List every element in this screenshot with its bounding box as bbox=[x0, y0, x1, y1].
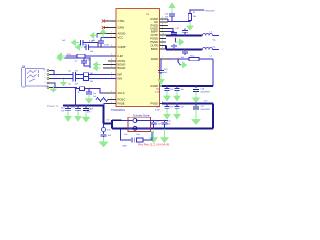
svg-text:Csn: Csn bbox=[124, 134, 127, 136]
svg-text:Rsn: Rsn bbox=[137, 134, 140, 136]
svg-text:0.1uF: 0.1uF bbox=[89, 41, 95, 43]
svg-text:3: 3 bbox=[111, 54, 112, 56]
svg-text:Schottky Diode: Schottky Diode bbox=[133, 115, 150, 118]
svg-text:3: 3 bbox=[111, 73, 112, 75]
svg-text:OUTN: OUTN bbox=[150, 44, 158, 48]
svg-text:PGND: PGND bbox=[150, 40, 158, 44]
svg-text:Dsn: Dsn bbox=[107, 130, 111, 132]
svg-text:100uF: 100uF bbox=[71, 107, 77, 109]
svg-text:C15: C15 bbox=[156, 89, 159, 91]
svg-text:GVDD: GVDD bbox=[150, 84, 158, 88]
svg-text:INP: INP bbox=[118, 73, 123, 77]
svg-text:C16: C16 bbox=[156, 106, 159, 108]
svg-text:C22: C22 bbox=[156, 120, 159, 122]
svg-text:PGND: PGND bbox=[150, 37, 158, 41]
svg-text:4: 4 bbox=[45, 81, 46, 83]
svg-text:CTRL: CTRL bbox=[118, 19, 126, 23]
svg-text:BGND: BGND bbox=[118, 63, 126, 67]
svg-text:TPA3106D1: TPA3106D1 bbox=[111, 108, 125, 112]
svg-text:0v: 0v bbox=[178, 61, 180, 63]
svg-text:BSPF: BSPF bbox=[151, 30, 158, 34]
svg-text:BSNF: BSNF bbox=[151, 47, 159, 51]
svg-text:10k: 10k bbox=[90, 73, 93, 75]
svg-text:Cin: Cin bbox=[68, 70, 71, 72]
svg-text:1/4W: 1/4W bbox=[122, 145, 127, 147]
svg-text:OUTP: OUTP bbox=[151, 33, 159, 37]
svg-text:10k: 10k bbox=[90, 81, 93, 83]
svg-text:MUTE: MUTE bbox=[118, 59, 126, 63]
svg-text:C18: C18 bbox=[201, 88, 204, 90]
svg-text:2: 2 bbox=[45, 73, 46, 75]
svg-text:Rosc: Rosc bbox=[190, 55, 195, 57]
svg-text:3: 3 bbox=[111, 45, 112, 47]
svg-text:10k: 10k bbox=[193, 16, 196, 18]
svg-text:0.1uF: 0.1uF bbox=[155, 92, 161, 94]
svg-text:VCLA: VCLA bbox=[118, 91, 125, 95]
svg-text:7: 7 bbox=[111, 77, 112, 79]
svg-text:1: 1 bbox=[45, 69, 46, 71]
svg-text:C13: C13 bbox=[164, 69, 167, 71]
svg-text:GAIN: GAIN bbox=[118, 26, 125, 30]
svg-text:Cin: Cin bbox=[68, 83, 71, 85]
svg-text:3: 3 bbox=[45, 77, 46, 79]
svg-text:INN: INN bbox=[118, 77, 123, 81]
svg-text:Cc: Cc bbox=[84, 44, 86, 46]
svg-text:PVDD/12V: PVDD/12V bbox=[205, 11, 216, 13]
svg-text:1k: 1k bbox=[78, 92, 80, 94]
svg-text:7: 7 bbox=[111, 32, 112, 34]
svg-text:NC: NC bbox=[154, 20, 158, 24]
svg-text:2: 2 bbox=[107, 26, 108, 28]
svg-text:6: 6 bbox=[111, 66, 112, 68]
svg-text:C23: C23 bbox=[167, 120, 170, 122]
svg-text:C17: C17 bbox=[204, 101, 207, 103]
svg-text:2: 2 bbox=[107, 19, 108, 21]
svg-text:2: 2 bbox=[111, 63, 112, 65]
svg-text:VCC: VCC bbox=[118, 36, 124, 40]
svg-text:BGND: BGND bbox=[118, 66, 126, 70]
svg-text:5: 5 bbox=[45, 86, 46, 88]
svg-text:AGND: AGND bbox=[118, 32, 126, 36]
svg-text:0.1uF: 0.1uF bbox=[156, 123, 162, 125]
svg-text:COMP: COMP bbox=[118, 45, 126, 49]
svg-text:2: 2 bbox=[111, 36, 112, 38]
svg-text:C19: C19 bbox=[201, 106, 204, 108]
svg-text:220uF/35V: 220uF/35V bbox=[201, 91, 211, 93]
svg-text:8: 8 bbox=[111, 59, 112, 61]
svg-text:PVDD: PVDD bbox=[151, 102, 159, 106]
svg-text:ROSC: ROSC bbox=[118, 98, 126, 102]
svg-text:AVDD: AVDD bbox=[151, 57, 158, 61]
svg-text:Rev.Rev (Z.Z.) 04-04-05: Rev.Rev (Z.Z.) 04-04-05 bbox=[138, 143, 170, 147]
svg-text:FADE: FADE bbox=[118, 102, 125, 106]
svg-text:ILIM: ILIM bbox=[118, 54, 124, 58]
svg-text:220uF/35V: 220uF/35V bbox=[201, 109, 211, 111]
svg-text:0.1uF: 0.1uF bbox=[155, 109, 161, 111]
svg-text:0.1uF: 0.1uF bbox=[104, 44, 110, 46]
svg-text:Cvc: Cvc bbox=[93, 93, 96, 95]
svg-text:Power In: Power In bbox=[47, 104, 59, 108]
svg-text:Vo-: Vo- bbox=[213, 46, 216, 48]
